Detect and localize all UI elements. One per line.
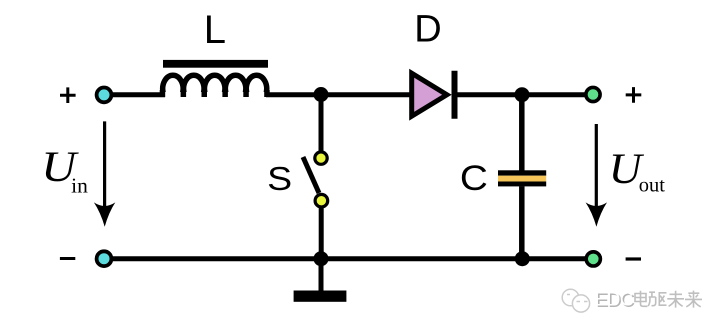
node junction top-capacitor (515, 87, 530, 102)
wire capacitor top lead (519, 95, 525, 171)
watermark text CJK qu (驱) (648, 292, 666, 306)
watermark text EDC (embossed gray) (595, 289, 635, 312)
switch S top contact (315, 152, 327, 164)
label C (460, 158, 488, 198)
svg-text:L: L (204, 8, 226, 52)
node junction top-switch (314, 87, 329, 102)
terminal output minus (green) (586, 252, 600, 266)
wire top-left segment (106, 92, 165, 97)
label D (414, 9, 441, 51)
switch S arm (303, 157, 319, 193)
plus sign output (626, 87, 642, 103)
wire switch bottom to junction (319, 207, 324, 258)
diode D (412, 71, 455, 119)
plus sign input (60, 87, 76, 103)
minus sign output (626, 257, 641, 260)
wire junction to switch top (319, 95, 324, 152)
wire bottom rail (106, 256, 592, 261)
svg-text:D: D (414, 9, 441, 51)
wire capacitor bottom lead (519, 186, 525, 258)
label L (204, 8, 226, 52)
arrow Uout (586, 124, 607, 227)
svg-text:C: C (460, 158, 488, 198)
watermark logo (562, 289, 589, 312)
terminal output plus (green) (586, 87, 600, 101)
arrow Uin (94, 121, 115, 226)
wire diode to output (457, 92, 592, 97)
switch S bottom contact (315, 194, 328, 207)
minus sign input (60, 257, 75, 260)
node junction bottom-switch (314, 251, 329, 266)
inductor L (162, 60, 268, 97)
watermark text CJK lai (来) (685, 291, 702, 308)
wire inductor to diode (266, 92, 411, 97)
svg-text:S: S (267, 160, 292, 197)
label Uin (41, 144, 88, 197)
svg-text:EDC: EDC (595, 289, 633, 310)
ground stub (319, 259, 324, 291)
node junction bottom-capacitor (515, 251, 530, 266)
terminal input minus (cyan) (97, 251, 112, 266)
ground bar (294, 291, 347, 302)
svg-text:out: out (639, 175, 666, 197)
watermark text CJK wei (未) (667, 291, 684, 308)
watermark text CJK dian (电) (635, 291, 648, 307)
svg-text:in: in (71, 173, 88, 197)
label Uout (609, 146, 666, 196)
terminal input plus (cyan) (97, 88, 112, 103)
capacitor C plates (498, 170, 546, 186)
label S (267, 160, 292, 197)
